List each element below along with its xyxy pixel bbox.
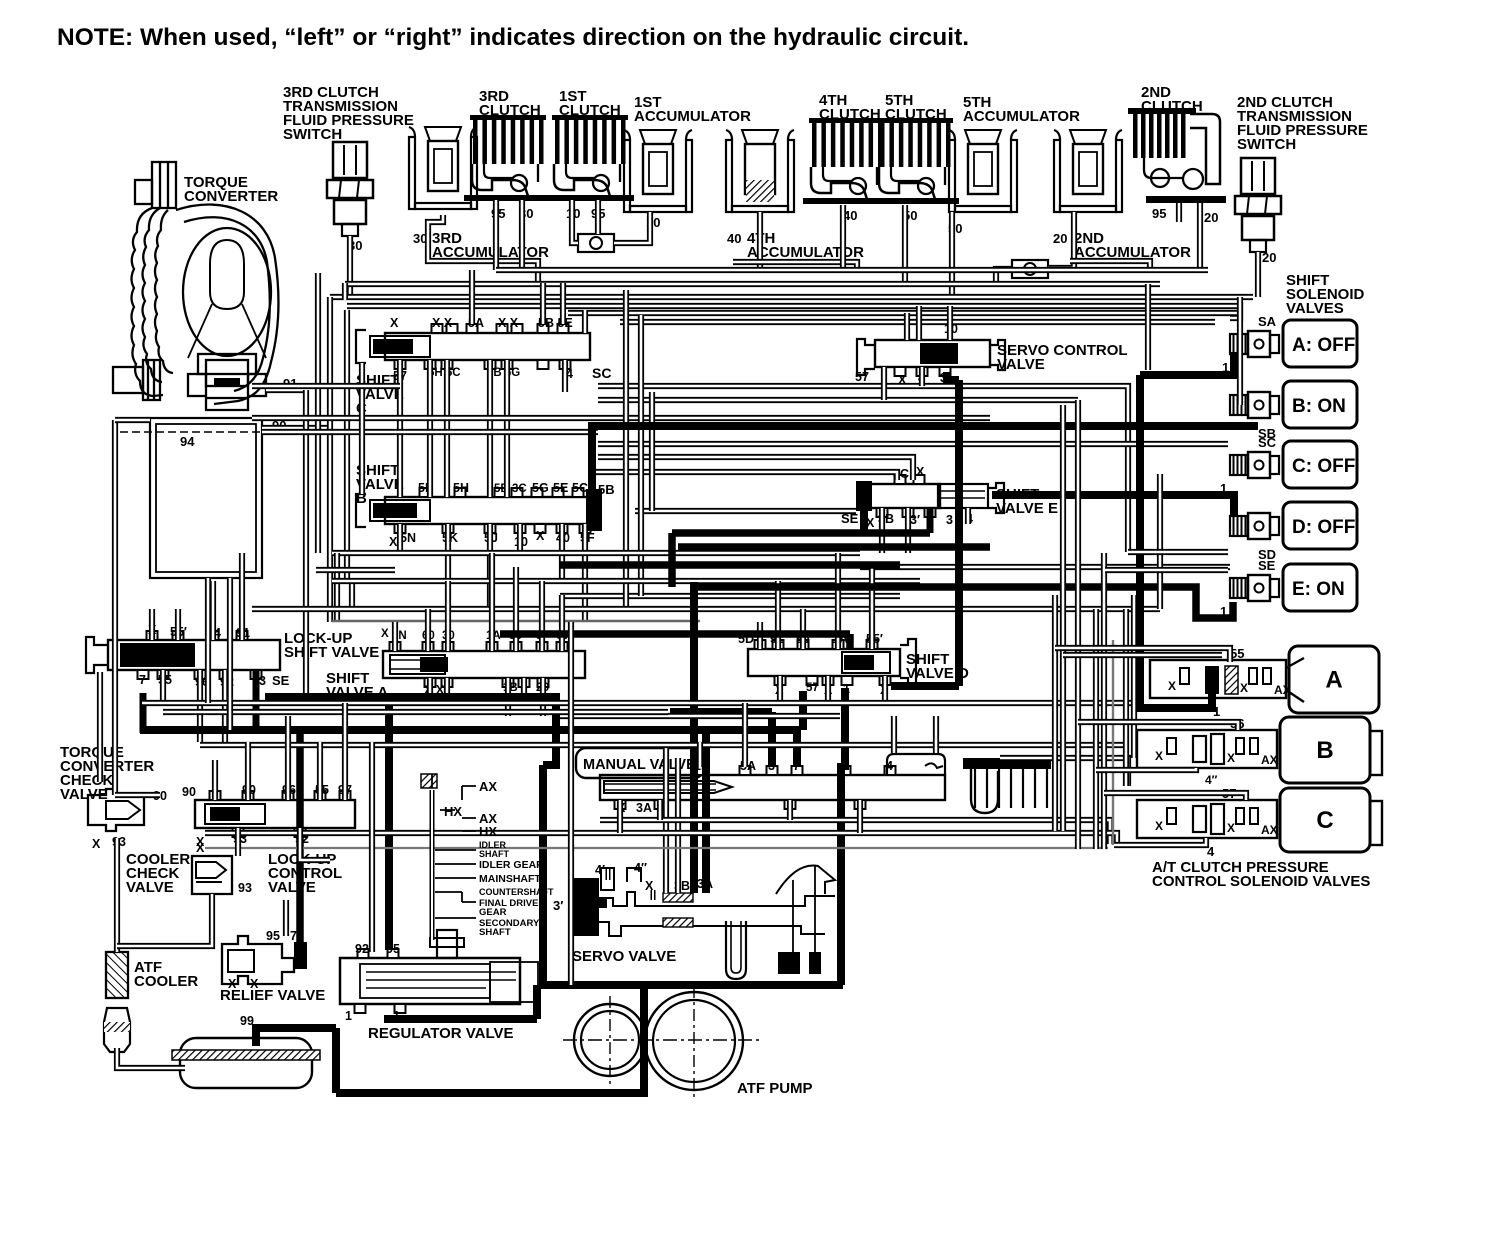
ATF cooler — [106, 952, 128, 998]
wire bus y313 — [568, 310, 1240, 316]
svg-text:SHAFT: SHAFT — [479, 927, 511, 938]
svg-text:IDLER GEAR: IDLER GEAR — [479, 859, 544, 871]
svg-text:D: OFF: D: OFF — [1292, 517, 1355, 538]
svg-text:A: OFF: A: OFF — [1292, 335, 1355, 356]
svg-text:5C: 5C — [572, 481, 588, 495]
manual valve port 4 bracket — [887, 754, 945, 775]
wire vert x1078 — [1075, 400, 1081, 849]
svg-text:E: ON: E: ON — [1292, 579, 1345, 600]
svg-text:4″: 4″ — [1205, 773, 1218, 787]
wire bus y758 — [1000, 758, 1128, 786]
wire 2nd accumulator label wrap — [1070, 261, 1150, 270]
svg-text:7: 7 — [290, 929, 297, 943]
wire servo control 57 down — [881, 367, 887, 400]
wire B5K down — [445, 524, 451, 581]
wire A X up — [392, 622, 398, 651]
svg-text:SC: SC — [592, 365, 611, 381]
wire DX down — [777, 676, 783, 703]
wire 3rd accumulator drop — [428, 215, 538, 283]
wire DX2 down — [825, 676, 831, 703]
torque converter — [113, 162, 278, 410]
svg-text:SHAFT: SHAFT — [479, 849, 509, 859]
wire lockup 92 down — [222, 670, 228, 742]
B box right tab — [1370, 731, 1382, 775]
shift valve D body — [748, 649, 900, 676]
wire vert x318 — [315, 273, 321, 553]
wire servo 4' drop — [606, 868, 611, 880]
wire C5H link — [427, 360, 433, 497]
wire thick y565 — [560, 561, 900, 569]
wire elbow y570 — [316, 567, 395, 573]
wire lockup SE down thick — [253, 670, 260, 733]
wire DX3 down — [882, 676, 888, 703]
wire lockupctl 97 up — [342, 703, 348, 800]
wire bus y444 SC — [598, 441, 1228, 447]
wire lockup 55 down — [160, 670, 166, 703]
solenoid valve A: OFF — [1283, 320, 1357, 367]
wire C5E up — [560, 283, 566, 324]
svg-text:40: 40 — [727, 231, 741, 246]
A/T pressure control unit A — [1150, 660, 1286, 698]
wire check valve top link — [115, 792, 160, 798]
shift valve C body — [385, 333, 590, 360]
wire lockupctl 55 up — [317, 742, 323, 800]
wire vert x352 — [349, 581, 355, 609]
svg-text:X: X — [1240, 681, 1248, 695]
wire gray vert x1113 — [1112, 640, 1114, 845]
svg-text:5B: 5B — [598, 482, 615, 497]
gear list feed pipes — [430, 790, 435, 940]
wire regulator 92 drop — [369, 742, 375, 952]
wire BX down — [397, 524, 403, 553]
wire 57 to unit C — [1104, 793, 1246, 800]
wire vert x362 — [359, 363, 365, 494]
wire bus y457 to EX — [598, 457, 913, 480]
wire 2nd clutch 20 drop — [1197, 203, 1203, 270]
3rd accumulator — [409, 127, 477, 209]
svg-text:94: 94 — [180, 434, 195, 449]
wire thick port7 up — [793, 730, 801, 767]
svg-text:X: X — [1227, 751, 1235, 765]
servo block 1 — [778, 952, 800, 974]
solenoid symbol C: OFF — [1230, 452, 1279, 478]
1st clutch — [546, 115, 634, 201]
svg-text:SE: SE — [1258, 558, 1276, 573]
wire CSC up — [582, 310, 588, 333]
svg-text:SE: SE — [272, 673, 290, 688]
dash line — [120, 431, 268, 433]
manual valve body — [600, 775, 945, 800]
shift valve E body — [870, 484, 940, 508]
svg-text:X: X — [390, 316, 399, 330]
svg-text:5E: 5E — [553, 481, 568, 495]
pump centerline v2 — [693, 986, 695, 1100]
wire A5F up — [539, 581, 545, 651]
wire bus y322 — [620, 319, 1215, 325]
wire bus y703 — [142, 700, 1135, 706]
svg-text:CONVERTER: CONVERTER — [184, 188, 278, 205]
wire E3B down — [905, 508, 911, 553]
wire C5G link — [504, 360, 510, 497]
servo 4'' bracket — [627, 868, 641, 882]
wire bus y833 — [205, 833, 1117, 845]
svg-text:20: 20 — [1262, 250, 1276, 265]
lock-up valve left bracket — [86, 637, 108, 673]
wire thick y533 — [672, 529, 930, 537]
wire manual down3 — [787, 800, 793, 820]
wire thick x672 link — [668, 533, 676, 587]
wire D5D up — [757, 622, 763, 649]
wire thick x1140 A feed vert — [1140, 375, 1212, 708]
svg-text:95: 95 — [1152, 206, 1166, 221]
svg-text:X: X — [228, 977, 237, 991]
wire lockup 55 up — [175, 609, 181, 640]
valve A spool detail — [390, 655, 445, 674]
manual valve spool arrow — [604, 781, 732, 793]
svg-text:95: 95 — [266, 929, 280, 943]
wire bus y567 SE — [860, 564, 1230, 570]
svg-text:SHIFT VALVE: SHIFT VALVE — [284, 644, 379, 661]
3rd clutch transmission fluid pressure switch — [327, 142, 373, 236]
unit A dark spool — [1205, 666, 1219, 694]
servo control valve left bracket — [857, 339, 875, 375]
wire 3rd switch drop — [347, 236, 353, 296]
valve E spool detail — [938, 484, 988, 508]
svg-text:99: 99 — [240, 1014, 254, 1028]
wire TCbox down2 — [227, 578, 233, 730]
wire manual down4 — [857, 800, 863, 833]
wire A55 up — [513, 567, 519, 651]
svg-text:X: X — [381, 628, 389, 640]
wire left vert x115 — [112, 420, 118, 795]
wire bus y400 — [598, 397, 1078, 403]
svg-text:COOLER: COOLER — [134, 973, 198, 990]
shift valve A body — [383, 651, 585, 678]
svg-text:SC: SC — [1258, 435, 1277, 450]
wire vert x641 — [638, 315, 644, 596]
wire B40 down — [559, 524, 565, 581]
svg-text:3: 3 — [946, 513, 953, 527]
svg-text:X: X — [1155, 819, 1163, 833]
wire bus y297 — [330, 294, 1253, 300]
wire lockupctl 92 down — [300, 828, 330, 860]
wire EX down — [879, 508, 885, 553]
wire servo ctl top port2 — [916, 306, 922, 340]
svg-text:GEAR: GEAR — [479, 907, 507, 918]
2nd clutch transmission fluid pressure switch — [1235, 158, 1281, 252]
wire 1st accumulator drop — [614, 212, 650, 243]
svg-text:3′: 3′ — [553, 898, 563, 913]
A/T pressure control unit B — [1137, 730, 1277, 768]
wire thick x959 vert — [955, 380, 963, 686]
svg-text:57: 57 — [806, 682, 819, 694]
solenoid valve B: ON — [1283, 381, 1357, 428]
wire vert x1160 — [1157, 474, 1163, 609]
wire B10 down — [517, 524, 523, 553]
valve D right spool — [842, 652, 890, 673]
svg-text:ACCUMULATOR: ACCUMULATOR — [963, 108, 1080, 125]
wire manual 1B up — [697, 742, 703, 767]
wire D1A up — [835, 553, 841, 649]
wire thick relief feed — [296, 733, 304, 942]
wire thick pump down — [640, 985, 648, 1093]
wire E4 down — [965, 508, 971, 524]
wire thick x706 vert — [702, 731, 710, 893]
wire thick A feed — [1140, 352, 1234, 375]
wire thick regulator 95 feed — [385, 705, 393, 950]
valve B right dark block — [586, 489, 602, 531]
relief valve body — [222, 936, 294, 984]
svg-text:B: ON: B: ON — [1292, 396, 1346, 417]
solenoid symbol D: OFF — [1230, 513, 1279, 539]
1st accumulator — [624, 130, 692, 212]
svg-text:AX: AX — [479, 779, 497, 794]
svg-text:4′: 4′ — [595, 863, 605, 877]
wire 2nd switch drop — [1255, 252, 1261, 297]
wire bus y472 to E3C — [588, 472, 897, 480]
servo control valve body — [875, 340, 990, 367]
wire thick D57 down — [799, 691, 807, 730]
svg-text:X: X — [536, 529, 545, 543]
wire 4pp line — [1096, 768, 1196, 770]
wire A X2 down — [444, 678, 450, 703]
svg-text:VALVE: VALVE — [268, 879, 316, 896]
svg-text:X: X — [92, 837, 101, 851]
valve B left spool — [370, 500, 430, 521]
cooler check valve body — [192, 856, 232, 894]
wire thick servo box bottom — [541, 981, 843, 989]
wire vert x345 stub — [342, 283, 348, 300]
wire cooler to pan — [117, 1048, 185, 1068]
wire vert x330 — [327, 297, 333, 622]
wire servo control 4 down — [919, 367, 925, 386]
wire bus y609 — [252, 606, 1160, 612]
pump centerline h — [563, 1039, 760, 1041]
svg-text:HX: HX — [444, 804, 462, 819]
servo tent curve — [776, 866, 835, 894]
gear list lines and labels — [432, 774, 476, 918]
wire D5J up — [800, 609, 806, 649]
svg-text:3A: 3A — [636, 801, 652, 815]
wire E SE down thick — [860, 511, 868, 533]
svg-text:VALVE E: VALVE E — [996, 500, 1058, 517]
wire 4th clutch drop — [840, 205, 846, 270]
wire thick D solenoid feed — [992, 495, 1234, 516]
svg-text:ATF PUMP: ATF PUMP — [737, 1080, 813, 1097]
solenoid symbol A: OFF — [1230, 331, 1279, 357]
wire thick x694 vert — [690, 582, 698, 893]
wire B5F down — [582, 524, 588, 622]
wire manual 5A up — [742, 703, 748, 767]
svg-text:57: 57 — [855, 370, 869, 384]
wire lockup 91 up — [239, 553, 245, 640]
servo drop lines — [793, 866, 815, 952]
label manual valve — [576, 748, 704, 778]
wire 3rd clutch 95 drop — [493, 200, 499, 270]
C box right tab — [1370, 801, 1382, 845]
wire manual 4 up1 — [891, 716, 897, 753]
svg-text:VALVES: VALVES — [1286, 300, 1344, 317]
wire bus y386 — [598, 386, 1128, 552]
svg-text:MAINSHAFT: MAINSHAFT — [479, 873, 541, 885]
wire A1A up — [489, 553, 495, 651]
wire lockup 7 down thick — [140, 693, 147, 733]
wire C4 down — [562, 360, 568, 392]
servo valve dark body — [573, 878, 607, 936]
wire lockupctl 93 down — [235, 828, 241, 856]
svg-text:X: X — [1155, 749, 1163, 763]
wire A20 down — [540, 678, 546, 716]
wire vert x652 — [649, 392, 655, 511]
wire lockupctl 90b up — [245, 742, 251, 800]
wire bus y306 to solenoid A — [347, 306, 1240, 318]
solenoid valve E: ON — [1283, 564, 1357, 611]
wire gray y848 — [205, 847, 1108, 849]
valve C left spool — [370, 336, 430, 357]
svg-text:X: X — [250, 977, 259, 991]
4th clutch — [803, 118, 891, 204]
svg-text:20: 20 — [1053, 231, 1067, 246]
svg-text:SA: SA — [1258, 314, 1277, 329]
wire vert x1063 — [1060, 405, 1066, 831]
wire thick y547 — [678, 543, 990, 551]
svg-text:A: A — [1325, 667, 1342, 694]
wire bus y716 — [560, 713, 840, 719]
wire vert x666 to servo — [663, 745, 669, 893]
svg-text:X X: X X — [498, 316, 519, 330]
wire A X down — [427, 678, 433, 703]
wire TC box feed — [115, 417, 150, 423]
wire 2nd clutch 95 drop — [1176, 203, 1182, 222]
wire manual 4 up2 — [933, 716, 939, 753]
clutch box B — [1280, 717, 1370, 783]
svg-text:NOTE: When used, “left” or “ri: NOTE: When used, “left” or “right” indic… — [57, 24, 969, 51]
wire AX3 down — [521, 678, 527, 703]
wire 4 line to unit C — [1114, 838, 1206, 845]
wire SD feed — [1128, 549, 1228, 555]
svg-text:X: X — [1168, 679, 1176, 693]
svg-text:X: X — [1227, 821, 1235, 835]
wire bus y270 — [496, 267, 1208, 273]
svg-text:3′: 3′ — [910, 513, 920, 527]
wire 2nd accumulator fitting link — [996, 269, 1012, 283]
wire manual X down — [617, 800, 623, 833]
svg-text:1: 1 — [345, 1009, 352, 1023]
svg-text:B: B — [1316, 737, 1333, 764]
wire thick regulator bottom — [384, 1015, 537, 1023]
svg-text:CONTROL SOLENOID VALVES: CONTROL SOLENOID VALVES — [1152, 873, 1370, 890]
wire servo control 10 up — [947, 306, 953, 340]
wire checkvalve to cooler — [114, 838, 120, 952]
servo valve outline — [599, 892, 835, 906]
wire ASA up — [559, 595, 565, 651]
svg-text:93: 93 — [238, 881, 252, 895]
wire 1st clutch 95 drop — [595, 200, 601, 234]
wire B5J down — [487, 524, 493, 609]
wire thick SB feed — [592, 426, 1258, 512]
clutch box C — [1280, 788, 1370, 852]
svg-text:AX: AX — [1261, 753, 1278, 767]
wire thick y697 to servo box — [265, 697, 556, 765]
wire 1st clutch 10 drop — [572, 200, 578, 243]
svg-text:SWITCH: SWITCH — [1237, 136, 1296, 153]
wire 2nd accumulator drop — [1048, 212, 1074, 268]
wire servo ctl top port1 — [904, 313, 910, 340]
wire bus y511 — [635, 508, 856, 514]
wire 4th accumulator label wrap — [733, 262, 857, 270]
wire E3 down thick — [927, 508, 934, 533]
wire bus y596 — [560, 593, 900, 599]
manual valve detent comb — [963, 758, 1051, 769]
orifice fitting near 2nd accumulator — [1012, 260, 1048, 278]
wire thick y634 elbow — [846, 634, 854, 650]
wire bus y745 — [200, 742, 1128, 748]
wire lockup X up — [149, 609, 155, 640]
wire bus y418 — [252, 415, 990, 421]
wire 5th accumulator drop — [949, 212, 955, 296]
wire A30 up — [445, 581, 451, 651]
wire vert x1134 — [1131, 595, 1137, 758]
wire 55 to unit A — [1055, 648, 1230, 662]
wire thick E feed — [692, 587, 1233, 618]
svg-text:SWITCH: SWITCH — [283, 126, 342, 143]
valve E right bracket — [988, 483, 1004, 513]
wire 91 link — [266, 387, 306, 393]
orifice fitting near 1st accumulator — [578, 234, 614, 252]
wire vert x1104 — [1101, 553, 1107, 849]
regulator bolt — [437, 930, 457, 958]
servo hatch connectors — [663, 893, 693, 902]
solenoid symbol E: ON — [1230, 575, 1279, 601]
wire vert x347 — [344, 310, 350, 581]
pump centerline v1 — [609, 996, 611, 1088]
wire C5B link — [487, 360, 493, 497]
servo block 2 — [809, 952, 821, 974]
wire 4th accumulator drop — [757, 212, 763, 270]
wire bus y712 left — [163, 709, 668, 715]
hatched vent square — [421, 774, 437, 788]
wire y386 left — [252, 383, 400, 389]
wire thick port3 up — [768, 712, 776, 767]
wire thick y712 — [670, 708, 772, 716]
svg-text:X: X — [389, 535, 398, 549]
wire relief up — [283, 900, 289, 936]
svg-text:HX: HX — [479, 824, 497, 839]
ATF pump gears — [574, 1004, 646, 1076]
wire vert x678 to servo — [675, 758, 681, 893]
svg-text:COUNTERSHAFT: COUNTERSHAFT — [479, 887, 554, 897]
servo control valve right bracket — [990, 340, 1005, 370]
svg-text:ACCUMULATOR: ACCUMULATOR — [634, 108, 751, 125]
wire thick to pan port — [332, 1028, 340, 1093]
lock-up control valve spool — [205, 804, 265, 824]
wire bus y820 — [600, 820, 1110, 844]
regulator valve body — [340, 958, 520, 1004]
wire vert x1055 — [1052, 595, 1058, 831]
3rd clutch — [464, 115, 552, 201]
svg-text:X: X — [196, 835, 205, 849]
wire C5A up — [469, 270, 475, 324]
wire vert x1148 — [1145, 284, 1151, 370]
svg-text:3C: 3C — [512, 483, 527, 495]
svg-text:AX: AX — [1261, 823, 1278, 837]
regulator inner sleeves — [360, 964, 490, 998]
wire thick servo box left — [539, 765, 547, 985]
wire manual 3A down — [657, 800, 663, 820]
wire thick pan 99 line — [256, 1028, 336, 1046]
wire lockupctl 96 up — [285, 716, 291, 800]
svg-text:SERVO VALVE: SERVO VALVE — [572, 948, 676, 965]
